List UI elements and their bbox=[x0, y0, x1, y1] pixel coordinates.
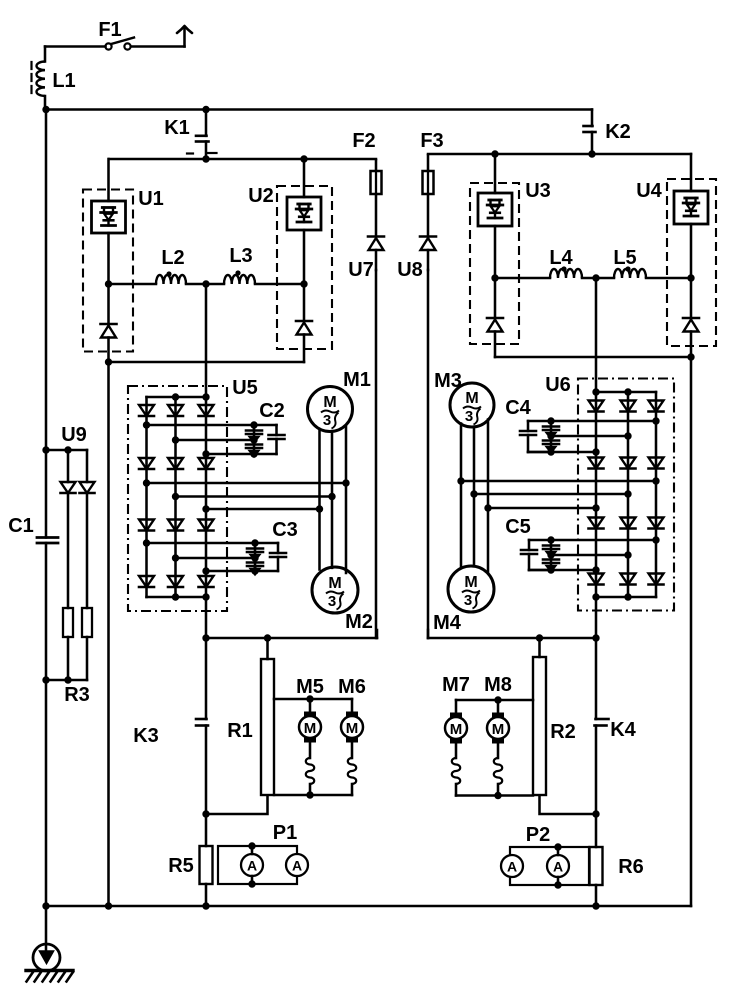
wire L5 to U4 bbox=[646, 277, 691, 280]
wire M1-M2 right bbox=[345, 426, 348, 574]
wire U5 tap C3 to C3 bbox=[206, 570, 255, 573]
svg-text:C5: C5 bbox=[505, 516, 531, 538]
motor M8 bbox=[484, 674, 512, 744]
wire U6 column D bbox=[595, 392, 598, 638]
svg-text:C2: C2 bbox=[259, 400, 285, 422]
node junction left rail bbox=[105, 358, 112, 365]
wire top bus bbox=[46, 108, 592, 111]
wire U5 tap B3 to C3 bbox=[176, 557, 256, 560]
svg-text:M4: M4 bbox=[433, 612, 462, 634]
surge diodes U9 bbox=[42, 424, 94, 608]
svg-text:P2: P2 bbox=[526, 824, 550, 846]
wire U6 column E bbox=[627, 392, 630, 597]
wire M5-M6 bottom bbox=[274, 794, 352, 797]
svg-text:M: M bbox=[465, 390, 478, 407]
svg-text:U2: U2 bbox=[248, 185, 274, 207]
svg-text:A: A bbox=[247, 858, 257, 874]
svg-text:M: M bbox=[323, 394, 336, 411]
svg-text:U5: U5 bbox=[232, 377, 258, 399]
wire left inner rail bbox=[107, 362, 110, 906]
wire U5 tap A2 to motor bus bbox=[147, 482, 347, 485]
wire U5 tap B1 to C2 bbox=[176, 439, 255, 442]
wire U5 tap C2 to motor bus bbox=[206, 508, 320, 511]
diode U5-21 bbox=[168, 405, 183, 416]
svg-text:A: A bbox=[553, 859, 563, 875]
resistor R2 bbox=[533, 638, 576, 795]
fuse-switch F1 bbox=[45, 19, 185, 50]
svg-text:U3: U3 bbox=[525, 180, 551, 202]
motor M1 bbox=[308, 369, 371, 432]
svg-text:F3: F3 bbox=[420, 130, 443, 152]
svg-text:A: A bbox=[507, 859, 517, 875]
wire M8 field coil bbox=[497, 741, 500, 758]
node junction U2-top bbox=[300, 155, 307, 162]
wire U6 column F bbox=[655, 392, 658, 597]
svg-text:C4: C4 bbox=[505, 397, 531, 419]
wire U8 to U6 output bbox=[428, 637, 596, 640]
wire M6 drop bbox=[351, 699, 354, 714]
diode U8 bbox=[397, 194, 436, 281]
node junction K3-R1 return bbox=[202, 810, 209, 817]
svg-text:M: M bbox=[304, 720, 317, 737]
svg-text:L2: L2 bbox=[161, 247, 184, 269]
wire M3-M4 middle bbox=[473, 427, 476, 566]
diode U5-13 bbox=[139, 520, 154, 531]
svg-text:M: M bbox=[492, 721, 505, 738]
wire U5 column B bbox=[174, 397, 177, 597]
wire U6 tap D2 to motor bus bbox=[488, 507, 596, 510]
thyristor module U3 bbox=[470, 154, 551, 357]
node supply arrow bbox=[177, 26, 192, 47]
shunt resistor R6 bbox=[590, 814, 644, 906]
svg-text:M7: M7 bbox=[442, 674, 470, 696]
diode U6-33 bbox=[649, 518, 664, 529]
wire U6 tap D3 to C5 bbox=[529, 569, 596, 572]
wire R2 bottom return bbox=[540, 795, 597, 814]
diode U5-22 bbox=[168, 458, 183, 469]
node junction K1-top bbox=[202, 106, 209, 113]
wire U5 tap B2 to motor bus bbox=[176, 495, 333, 498]
diode U5-33 bbox=[199, 520, 214, 531]
svg-text:L4: L4 bbox=[549, 247, 573, 269]
inductor L2 bbox=[156, 247, 186, 284]
wire M7 drop bbox=[455, 700, 458, 715]
diode U6-23 bbox=[621, 518, 636, 529]
ground bbox=[26, 906, 73, 982]
node junction K2-bottom bbox=[588, 150, 595, 157]
motor M7 bbox=[442, 674, 470, 744]
wire U6 tap E3 to C5 bbox=[551, 554, 628, 557]
node junction R2-top bbox=[536, 634, 543, 641]
wire U3 to L4 bbox=[495, 277, 550, 280]
node junction U2-L3 bbox=[300, 280, 307, 287]
svg-text:K3: K3 bbox=[133, 725, 159, 747]
node junction L1-bus bbox=[42, 106, 49, 113]
wire R1 bottom return bbox=[206, 795, 268, 814]
diode U6-14 bbox=[589, 574, 604, 585]
node junction U3-top bbox=[491, 150, 498, 157]
wire M3-M4 left bbox=[460, 424, 463, 568]
wire L2 to L3 bbox=[186, 283, 224, 286]
wire M5 drop bbox=[309, 699, 312, 714]
motor M5 bbox=[296, 676, 324, 743]
wire U5 column C bbox=[205, 397, 208, 638]
capacitor group C2 bbox=[246, 400, 285, 458]
node junction U4-L5 bbox=[687, 274, 694, 281]
node junction R5-bus bbox=[202, 902, 209, 909]
motor M3 bbox=[434, 370, 494, 427]
wire M7-M8 bottom bbox=[456, 794, 533, 797]
svg-text:M1: M1 bbox=[343, 369, 371, 391]
wire U1-U2 bottom bbox=[109, 361, 305, 364]
svg-text:R6: R6 bbox=[618, 856, 644, 878]
svg-text:M6: M6 bbox=[338, 676, 366, 698]
wire U6 tap F3 to C5 bbox=[551, 539, 656, 542]
svg-text:A: A bbox=[292, 858, 302, 874]
motor M6 bbox=[338, 676, 366, 743]
diode U6-24 bbox=[621, 574, 636, 585]
wire U6 tap F1 to C4 bbox=[551, 420, 656, 423]
wire M6 field coil bbox=[351, 740, 354, 758]
wire U5 tap C1 to C2 bbox=[206, 453, 254, 456]
node junction U1-L2 bbox=[105, 280, 112, 287]
wire L4 to L5 bbox=[582, 277, 614, 280]
wire left rail upper bbox=[45, 110, 48, 538]
meter panel P2 bbox=[501, 824, 589, 889]
svg-text:U9: U9 bbox=[61, 424, 87, 446]
node junction ground rail bbox=[42, 902, 49, 909]
svg-text:M8: M8 bbox=[484, 674, 512, 696]
contactor K2 bbox=[584, 110, 631, 155]
diode U6-12 bbox=[589, 458, 604, 469]
wire U3-U4 bottom bbox=[495, 356, 691, 359]
diode U5-12 bbox=[139, 458, 154, 469]
svg-text:C1: C1 bbox=[8, 515, 34, 537]
svg-text:U7: U7 bbox=[348, 259, 374, 281]
svg-text:3: 3 bbox=[323, 412, 331, 429]
wire L3 to U2 bbox=[255, 283, 304, 286]
shunt resistor R5 bbox=[168, 814, 212, 906]
node junction U3-L4 bbox=[491, 274, 498, 281]
svg-text:R1: R1 bbox=[227, 720, 253, 742]
wire U5 top bus bbox=[147, 396, 207, 399]
wire U8 vertical bbox=[427, 270, 430, 638]
wire U6 tap E2 to motor bus bbox=[474, 493, 628, 496]
svg-text:M5: M5 bbox=[296, 676, 324, 698]
fuse F2 bbox=[352, 130, 381, 194]
svg-text:L1: L1 bbox=[52, 70, 75, 92]
diode U6-11 bbox=[589, 401, 604, 412]
wire right outer rail bbox=[690, 357, 693, 906]
capacitor group C3 bbox=[247, 519, 298, 575]
svg-text:L3: L3 bbox=[229, 245, 252, 267]
inductor L3 bbox=[224, 245, 255, 284]
wire M1-M2 left bbox=[318, 430, 321, 570]
diode U6-32 bbox=[649, 458, 664, 469]
contactor K1 bbox=[164, 110, 216, 160]
contactor K3 bbox=[133, 638, 208, 814]
svg-text:F1: F1 bbox=[98, 19, 121, 41]
svg-text:R5: R5 bbox=[168, 855, 194, 877]
thyristor module U2 bbox=[248, 159, 332, 362]
diode U6-34 bbox=[649, 574, 664, 585]
inductor L5 bbox=[613, 247, 646, 278]
wire right secondary bus bbox=[428, 153, 691, 156]
wire U5 centre-tap feed bbox=[205, 284, 208, 397]
wire U6 tap F2 to motor bus bbox=[461, 480, 656, 483]
capacitor group C5 bbox=[505, 516, 559, 574]
thyristor module U1 bbox=[83, 159, 164, 362]
svg-text:3: 3 bbox=[465, 408, 473, 425]
diode U6-22 bbox=[621, 458, 636, 469]
wire U5 bottom bus bbox=[147, 596, 207, 599]
diode U5-11 bbox=[139, 405, 154, 416]
fuse F3 bbox=[420, 130, 443, 194]
rectifier stack U5 box bbox=[128, 377, 258, 611]
wire bottom bus bbox=[46, 905, 691, 908]
node junction K4-R2 return bbox=[592, 810, 599, 817]
svg-text:M2: M2 bbox=[345, 611, 373, 633]
diode U7 bbox=[348, 194, 384, 281]
wire M5-M6 top bbox=[274, 698, 352, 701]
wire left rail lower bbox=[45, 543, 48, 906]
diode U5-34 bbox=[199, 576, 214, 587]
wire U1 to L2 bbox=[109, 283, 157, 286]
svg-text:C3: C3 bbox=[272, 519, 298, 541]
wire left secondary bus bbox=[109, 158, 376, 161]
svg-text:U4: U4 bbox=[636, 180, 662, 202]
wire U5 tap A1 to C2 bbox=[147, 424, 255, 427]
node junction K3-top bbox=[202, 634, 209, 641]
diode U5-24 bbox=[168, 576, 183, 587]
capacitor C1 bbox=[8, 515, 58, 543]
meter panel P1 bbox=[218, 822, 308, 888]
svg-text:M: M bbox=[328, 575, 341, 592]
node junction R1-top bbox=[264, 634, 271, 641]
node junction right rail bbox=[687, 353, 694, 360]
diode U6-31 bbox=[649, 401, 664, 412]
svg-text:K1: K1 bbox=[164, 117, 190, 139]
svg-text:U1: U1 bbox=[138, 188, 164, 210]
diode U6-13 bbox=[589, 518, 604, 529]
svg-text:M3: M3 bbox=[434, 370, 462, 392]
node junction L4-L5 centre tap bbox=[592, 274, 599, 281]
wire M7-M8 top bbox=[456, 699, 533, 702]
svg-text:3: 3 bbox=[328, 593, 336, 610]
wire U6 centre-tap feed bbox=[595, 278, 598, 392]
svg-text:F2: F2 bbox=[352, 130, 375, 152]
svg-text:R2: R2 bbox=[550, 721, 576, 743]
wire U5 output to U7 bbox=[206, 637, 377, 640]
wire U6 tap D1 to C4 bbox=[528, 451, 596, 454]
svg-text:L5: L5 bbox=[613, 247, 636, 269]
svg-text:M: M bbox=[450, 721, 463, 738]
wire M3-M4 right bbox=[487, 420, 490, 573]
svg-text:U6: U6 bbox=[545, 374, 571, 396]
wire U6 top bus bbox=[596, 391, 656, 394]
node junction K1-bottom bbox=[202, 155, 209, 162]
svg-text:K2: K2 bbox=[605, 121, 631, 143]
motor M2 bbox=[312, 567, 373, 633]
wire M8 drop bbox=[497, 700, 500, 715]
wire M7 field coil bbox=[455, 741, 458, 758]
resistors R3 bbox=[42, 608, 92, 706]
node junction left inner rail-bus bbox=[105, 902, 112, 909]
wire U7 vertical bbox=[375, 270, 378, 638]
wire U5 tap A3 to C3 bbox=[147, 542, 256, 545]
svg-text:K4: K4 bbox=[610, 719, 636, 741]
svg-text:3: 3 bbox=[464, 592, 472, 609]
inductor L1 bbox=[32, 47, 76, 110]
thyristor module U4 bbox=[636, 154, 716, 357]
motor M4 bbox=[433, 566, 494, 634]
wire U6 bottom bus bbox=[596, 596, 656, 599]
capacitor group C4 bbox=[505, 397, 559, 456]
diode U6-21 bbox=[621, 401, 636, 412]
wire M5 field coil bbox=[309, 740, 312, 758]
svg-text:M: M bbox=[464, 574, 477, 591]
node junction L2-L3 centre tap bbox=[202, 280, 209, 287]
node junction R6-bus bbox=[592, 902, 599, 909]
wire U5 column A bbox=[145, 397, 148, 597]
rectifier stack U6 box bbox=[545, 374, 674, 611]
wire M1-M2 middle bbox=[331, 431, 334, 567]
resistor R1 bbox=[227, 638, 274, 795]
diode U5-23 bbox=[168, 520, 183, 531]
diode U5-31 bbox=[199, 405, 214, 416]
node junction K4-top bbox=[592, 634, 599, 641]
svg-text:U8: U8 bbox=[397, 259, 423, 281]
diode U5-32 bbox=[199, 458, 214, 469]
wire U6 tap E1 to C4 bbox=[551, 435, 628, 438]
diode U5-14 bbox=[139, 576, 154, 587]
contactor K4 bbox=[595, 638, 637, 814]
inductor L4 bbox=[549, 247, 582, 278]
svg-text:R3: R3 bbox=[64, 684, 90, 706]
svg-text:P1: P1 bbox=[273, 822, 297, 844]
svg-text:M: M bbox=[346, 720, 359, 737]
